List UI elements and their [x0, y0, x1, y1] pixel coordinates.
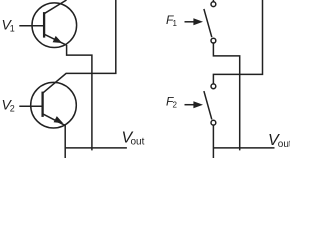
wire Q2 emitter [43, 114, 66, 126]
switch F2 top contact [211, 84, 216, 89]
wire Q2 collector up to top rail [43, 0, 116, 93]
transistor Q2 [31, 82, 77, 128]
wire F2 bottom to bottom edge [212, 125, 214, 158]
wire Q1 collector [44, 0, 66, 14]
Q2 emitter arrowhead [54, 116, 64, 123]
switch F1 blade [204, 9, 212, 37]
wire Vout right [213, 147, 274, 149]
wire V1 base lead [19, 25, 44, 27]
arrow F2 shaft [185, 104, 196, 106]
wire Vout left [65, 147, 127, 149]
wire top rail to F2 [213, 0, 262, 84]
wire Q1 emitter [44, 34, 67, 45]
wire F1 bottom to Vout node [213, 43, 239, 150]
switch F1 bottom contact [211, 38, 216, 43]
svg-text:1: 1 [10, 23, 15, 33]
svg-text:out: out [278, 139, 290, 150]
transistor Q2 base bar [41, 92, 43, 117]
arrow F2 head [193, 101, 203, 108]
svg-text:2: 2 [10, 103, 15, 113]
switch F2 blade [204, 91, 212, 119]
arrow F1 shaft [185, 21, 196, 23]
svg-text:2: 2 [173, 101, 178, 110]
wire Q2 emitter down to bottom [64, 125, 66, 158]
switch F2 bottom contact [211, 120, 216, 125]
svg-text:1: 1 [173, 19, 178, 28]
arrow F1 head [193, 18, 203, 25]
switch F1 top contact [211, 2, 216, 7]
wire Q1 emitter down-right-down to Vout node [67, 45, 92, 150]
Q1 emitter arrowhead [53, 36, 63, 43]
wire V2 base lead [19, 105, 42, 107]
transistor Q1 base bar [43, 12, 45, 37]
transistor Q1 [32, 3, 77, 48]
wire top feed F1 [212, 0, 214, 2]
svg-text:out: out [131, 137, 145, 148]
